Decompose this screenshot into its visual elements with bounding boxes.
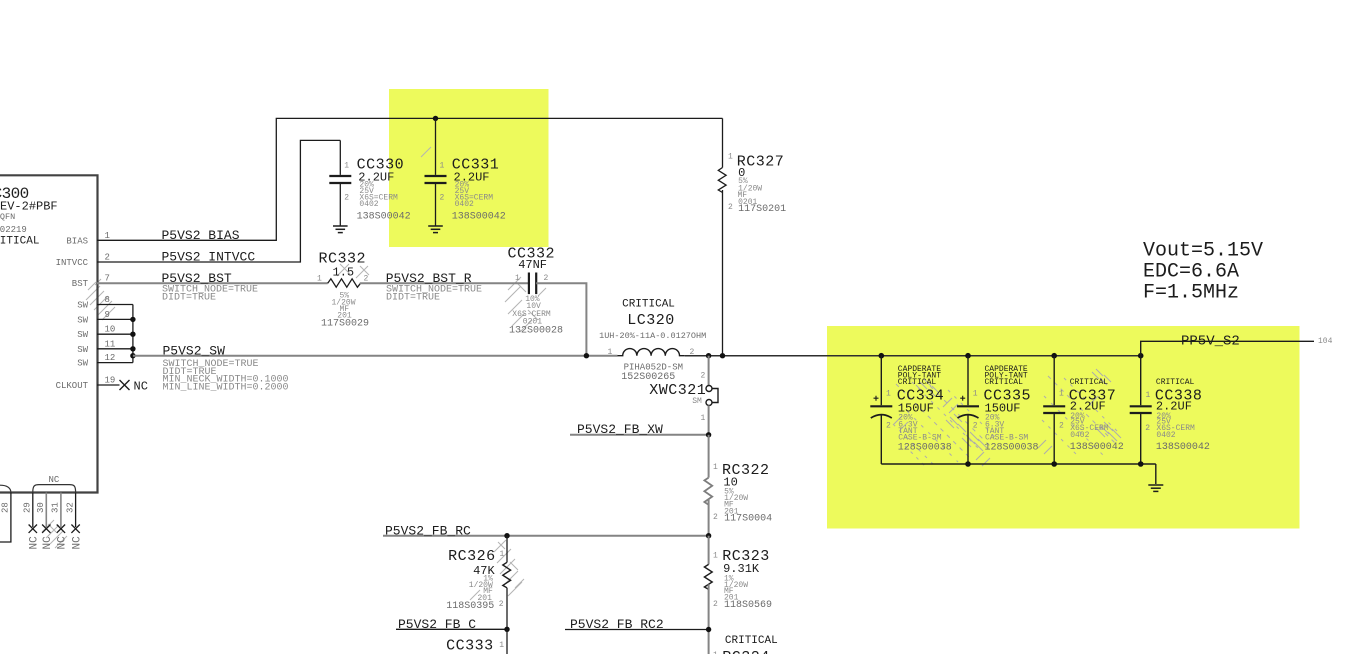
svg-text:RC326: RC326 <box>448 548 496 565</box>
wire XWC321 pin 1 down to FB_XW <box>708 405 710 434</box>
svg-text:CRITICAL: CRITICAL <box>985 378 1024 387</box>
capacitor CC330 plates <box>329 176 351 183</box>
junction dot CC331 on BIAS bus <box>433 116 438 121</box>
svg-text:P5VS2_INTVCC: P5VS2_INTVCC <box>162 250 256 265</box>
svg-text:1: 1 <box>973 390 978 399</box>
inductor LC320 body <box>618 349 685 356</box>
svg-text:1.5: 1.5 <box>333 266 355 280</box>
svg-text:MIN_LINE_WIDTH=0.2000: MIN_LINE_WIDTH=0.2000 <box>163 382 289 393</box>
junction SW net exit <box>130 353 135 358</box>
wire LC320 pin2 to output bus <box>685 355 1141 357</box>
svg-text:128S00038: 128S00038 <box>985 442 1039 453</box>
no-connect X pin 30 <box>42 525 50 533</box>
svg-text:LC320: LC320 <box>627 312 675 329</box>
svg-text:138S00042: 138S00042 <box>452 212 506 223</box>
svg-text:28: 28 <box>1 502 11 513</box>
svg-text:PP5V_S2: PP5V_S2 <box>1181 334 1240 350</box>
svg-text:NC: NC <box>71 536 83 550</box>
svg-text:CRITICAL: CRITICAL <box>1156 378 1195 387</box>
svg-text:2: 2 <box>973 422 978 431</box>
svg-text:0402: 0402 <box>359 200 378 209</box>
resistor RC332 body <box>328 279 361 287</box>
junction dot bottom CC335 <box>965 461 971 467</box>
net PP5V_S2 wire <box>1141 341 1314 355</box>
net P5VS2_FB_RC wire <box>383 535 709 537</box>
wire CC332 pin2 down to SW node <box>536 283 586 355</box>
junction SW pin 11 <box>130 346 135 351</box>
net P5VS2_BST wire (IC to RC332) <box>97 282 328 284</box>
SW pin stub 12 <box>97 362 133 364</box>
junction dot BST branch on SW node <box>584 353 589 358</box>
svg-text:LQFN: LQFN <box>0 212 15 222</box>
ground symbol below CC330 <box>333 226 348 233</box>
pin 28 wire <box>0 493 11 543</box>
svg-text:SW: SW <box>77 359 88 369</box>
resistor RC323 body <box>704 564 712 589</box>
junction dot FB_C <box>504 627 509 632</box>
capacitor CC335 plates (polarized) <box>957 406 979 418</box>
capacitor CC330 top lead <box>339 140 341 175</box>
net P5VS2_INTVCC wire <box>97 140 340 262</box>
svg-text:8: 8 <box>105 295 110 305</box>
SW pin stub 8 <box>97 304 133 306</box>
svg-text:9: 9 <box>105 310 110 320</box>
SW pin stub 11 <box>97 348 133 350</box>
variant hatch over CC332 <box>505 277 546 332</box>
capacitor CC335 leads <box>967 356 969 464</box>
svg-text:NC: NC <box>134 380 148 394</box>
svg-text:1: 1 <box>499 641 504 650</box>
junction dot RC327 branch <box>720 353 725 358</box>
svg-text:NC: NC <box>29 536 41 550</box>
variant hatch over CC334/CC335 <box>893 379 996 466</box>
svg-text:117S0201: 117S0201 <box>738 204 786 215</box>
svg-text:12: 12 <box>105 353 116 363</box>
variant hatch over NC pins 30-31 <box>42 520 67 548</box>
svg-text:SW: SW <box>77 330 88 340</box>
svg-text:2: 2 <box>713 513 718 522</box>
svg-text:SW: SW <box>77 301 88 311</box>
svg-text:CLKOUT: CLKOUT <box>56 381 89 391</box>
svg-text:PIHA052D-SM: PIHA052D-SM <box>624 363 683 373</box>
capacitor CC331 plates <box>425 176 447 183</box>
svg-text:2: 2 <box>728 203 733 212</box>
svg-text:CRITICAL: CRITICAL <box>0 236 39 248</box>
no-connect X pin 32 <box>71 525 79 533</box>
svg-text:1: 1 <box>440 162 445 171</box>
NC group brace over pins 29-32 <box>33 485 76 492</box>
svg-text:INTVCC: INTVCC <box>56 258 89 268</box>
svg-text:1: 1 <box>886 390 891 399</box>
capacitor CC330 bottom lead <box>339 184 341 226</box>
svg-text:NC: NC <box>49 475 60 485</box>
SW pin stub 10 <box>97 333 133 335</box>
svg-text:132S00028: 132S00028 <box>509 326 563 337</box>
pin 31 wire <box>60 493 62 528</box>
svg-text:CRITICAL: CRITICAL <box>898 378 937 387</box>
svg-text:CASE-B-SM: CASE-B-SM <box>985 434 1028 443</box>
capacitor CC334 plates (polarized) <box>870 406 892 418</box>
SW bus vertical <box>132 305 134 363</box>
variant hatch over CC337 <box>1038 369 1121 456</box>
net P5VS2_FB_XW wire <box>570 434 709 436</box>
net P5VS2_FB_RC2 wire <box>565 629 709 631</box>
svg-text:1: 1 <box>344 162 349 171</box>
junction dot XWC321 branch <box>706 353 711 358</box>
svg-text:2: 2 <box>544 274 549 283</box>
resistor RC326 top lead <box>506 536 508 563</box>
svg-text:118S0395: 118S0395 <box>446 601 494 612</box>
junction dot CC334 <box>879 353 885 359</box>
svg-text:2: 2 <box>713 600 718 609</box>
svg-text:10: 10 <box>105 325 116 335</box>
svg-text:1: 1 <box>500 550 505 559</box>
junction dot FB_RC at RC326 <box>504 533 509 538</box>
variant hatch tick near CC331 <box>421 147 431 157</box>
svg-text:1: 1 <box>317 275 322 284</box>
highlight block over CC330/CC331 <box>389 89 549 247</box>
svg-text:1: 1 <box>1059 390 1064 399</box>
no-connect X on CLKOUT <box>120 380 130 390</box>
net P5VS2_BST_R wire (RC332 to CC332) <box>360 282 528 284</box>
svg-text:11: 11 <box>105 339 116 349</box>
resistor RC323 top lead <box>708 536 710 565</box>
svg-text:117S0004: 117S0004 <box>724 514 772 525</box>
svg-text:138S00042: 138S00042 <box>1070 442 1124 453</box>
capacitor CC331 top lead <box>435 118 437 174</box>
svg-text:31: 31 <box>51 502 61 513</box>
variant hatch over RC326 <box>470 540 524 600</box>
pin 29 wire <box>32 493 34 528</box>
capacitor CC338 plates <box>1130 406 1152 413</box>
highlight block over output capacitors <box>827 326 1300 529</box>
svg-text:1: 1 <box>1146 391 1151 400</box>
svg-text:P5VS2_FB_RC: P5VS2_FB_RC <box>385 523 471 538</box>
svg-text:1UH-20%-11A-0.0127OHM: 1UH-20%-11A-0.0127OHM <box>599 331 706 341</box>
junction SW pin 10 <box>130 332 135 337</box>
capacitor CC337 leads <box>1053 356 1055 464</box>
svg-text:1: 1 <box>728 153 733 162</box>
svg-text:1: 1 <box>608 348 613 357</box>
net P5VS2_SW wire (IC to LC320) <box>133 355 618 357</box>
junction dot FB_RC2 <box>706 627 711 632</box>
junction dot bottom CC337 <box>1051 461 1057 467</box>
wire SW node down to XWC321 pin 2 <box>708 356 710 386</box>
net P5VS2_BIAS wire <box>97 118 723 240</box>
svg-text:1: 1 <box>701 414 706 423</box>
svg-text:1: 1 <box>713 463 718 472</box>
capacitor CC334 leads <box>880 356 882 464</box>
pin 30 wire <box>45 493 47 528</box>
svg-text:DIDT=TRUE: DIDT=TRUE <box>162 292 216 303</box>
ground symbol at output <box>1148 485 1163 491</box>
svg-text:NC: NC <box>42 536 54 550</box>
svg-text:2: 2 <box>364 275 369 284</box>
resistor RC322 body <box>704 478 712 505</box>
no-connect X pin 29 <box>29 525 37 533</box>
svg-text:CRITICAL: CRITICAL <box>1070 378 1109 387</box>
junction dot FB_RC at RC322/RC323 <box>706 533 711 538</box>
capacitor CC331 bottom lead <box>435 184 437 226</box>
resistor RC322 top lead <box>708 435 710 478</box>
svg-text:30: 30 <box>36 502 46 513</box>
ground stub at output <box>1155 464 1157 484</box>
net P5VS2_FB_C wire <box>396 628 507 630</box>
svg-text:117S0029: 117S0029 <box>321 319 369 330</box>
svg-text:Vout=5.15V: Vout=5.15V <box>1143 240 1263 263</box>
svg-text:NC: NC <box>57 536 69 550</box>
svg-text:128S00038: 128S00038 <box>898 442 952 453</box>
svg-text:2: 2 <box>701 372 706 381</box>
resistor RC323 bottom lead <box>708 584 710 654</box>
capacitor CC333 top lead <box>506 629 508 654</box>
svg-text:118S0569: 118S0569 <box>724 600 772 611</box>
svg-text:SM: SM <box>692 397 702 406</box>
svg-text:P5VS2_FB_RC2: P5VS2_FB_RC2 <box>570 617 664 632</box>
svg-text:0402: 0402 <box>1070 431 1089 440</box>
svg-text:2: 2 <box>1059 422 1064 431</box>
svg-text:P5VS2_SW: P5VS2_SW <box>163 343 226 358</box>
junction dot CC337 <box>1051 353 1057 359</box>
svg-text:2: 2 <box>440 194 445 203</box>
junction dot CC335 <box>965 353 971 359</box>
svg-text:29: 29 <box>23 502 33 513</box>
svg-text:402219: 402219 <box>0 225 27 235</box>
svg-text:1: 1 <box>713 552 718 561</box>
svg-text:RC324: RC324 <box>722 649 770 654</box>
variant hatch over RC332 value <box>337 264 369 278</box>
no-connect X pin 31 <box>57 525 65 533</box>
svg-text:SW: SW <box>77 315 88 325</box>
svg-text:BST: BST <box>72 279 89 289</box>
svg-text:1: 1 <box>515 274 520 283</box>
svg-text:EDC=6.6A: EDC=6.6A <box>1143 261 1239 284</box>
svg-text:P5VS2_FB_XW: P5VS2_FB_XW <box>577 422 663 437</box>
junction SW pin 9 <box>130 317 135 322</box>
SW pin stub 9 <box>97 318 133 320</box>
svg-text:P5VS2_FB_C: P5VS2_FB_C <box>398 617 476 632</box>
resistor RC326 bottom lead <box>506 588 508 630</box>
svg-text:DIDT=TRUE: DIDT=TRUE <box>386 292 440 303</box>
svg-text:2: 2 <box>1145 424 1150 433</box>
IC UC300 body outline <box>0 175 98 492</box>
svg-text:2: 2 <box>344 194 349 203</box>
svg-text:32: 32 <box>65 502 75 513</box>
svg-text:BIAS: BIAS <box>66 236 88 246</box>
pin 32 wire <box>75 493 77 528</box>
svg-text:104: 104 <box>1318 337 1333 346</box>
CC334 plus sign <box>874 396 879 401</box>
svg-text:SW: SW <box>77 345 88 355</box>
svg-text:19: 19 <box>105 376 116 386</box>
capacitor CC337 plates <box>1043 406 1065 413</box>
svg-text:2: 2 <box>886 422 891 431</box>
svg-text:CASE-B-SM: CASE-B-SM <box>898 434 941 443</box>
svg-text:47NF: 47NF <box>518 258 547 272</box>
variant hatch near IC SW pins <box>86 279 115 320</box>
resistor RC322 bottom lead <box>708 499 710 535</box>
resistor RC326 body <box>503 562 511 587</box>
svg-text:138S00042: 138S00042 <box>357 212 411 223</box>
resistor RC327 bottom lead <box>722 190 724 356</box>
partial brace at far left (pin 28 group) <box>0 485 11 492</box>
ground symbol below CC331 <box>428 226 443 233</box>
junction dot bottom CC338 <box>1138 461 1144 467</box>
resistor RC327 top lead <box>722 118 724 167</box>
capacitor CC332 plates <box>529 273 536 295</box>
svg-text:0402: 0402 <box>455 200 474 209</box>
jumper XWC321 pads and strap <box>706 386 718 406</box>
svg-text:P5VS2_BIAS: P5VS2_BIAS <box>162 228 240 243</box>
svg-text:CRITICAL: CRITICAL <box>622 299 675 311</box>
svg-text:2: 2 <box>105 253 110 263</box>
svg-text:CRITICAL: CRITICAL <box>725 635 778 647</box>
svg-text:7: 7 <box>105 273 110 283</box>
CC335 plus sign <box>960 396 965 401</box>
resistor RC327 body <box>718 168 726 193</box>
junction dot CC338 / PP5V_S2 <box>1138 353 1144 359</box>
output capacitors bottom bus wire <box>881 463 1156 465</box>
junction dot FB_XW <box>706 432 711 437</box>
IC UC300 reference text (clipped at left edge) <box>0 185 58 248</box>
svg-text:CC333: CC333 <box>446 638 494 654</box>
svg-text:1: 1 <box>105 231 110 241</box>
svg-text:138S00042: 138S00042 <box>1156 442 1210 453</box>
svg-text:0402: 0402 <box>1156 431 1175 440</box>
capacitor CC338 leads <box>1140 356 1142 464</box>
svg-text:2: 2 <box>499 600 504 609</box>
svg-text:F=1.5MHz: F=1.5MHz <box>1143 282 1239 305</box>
CLKOUT pin stub <box>97 384 120 386</box>
